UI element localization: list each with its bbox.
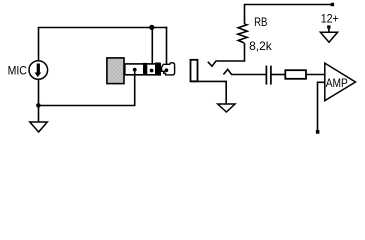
junction dot bottom	[36, 103, 41, 108]
wire bottom horizontal	[38, 105, 136, 107]
wire to ground left	[38, 106, 40, 123]
junction dot top	[149, 25, 154, 30]
microphone arrow	[35, 64, 42, 78]
wire mic bottom	[38, 79, 40, 105]
plug band 1	[143, 63, 147, 76]
socket ring contact	[223, 69, 266, 74]
wire top horizontal	[38, 27, 168, 29]
ground left	[30, 122, 48, 132]
plug tip contact tick	[164, 70, 166, 72]
ground socket	[218, 104, 235, 112]
wire cap to resistor	[271, 74, 286, 76]
socket tip contact	[208, 43, 245, 66]
supply 12+ triangle	[320, 32, 337, 42]
svg-text:RB: RB	[254, 16, 268, 29]
tip tap dot	[165, 68, 169, 72]
resistor RB zigzag	[238, 24, 247, 43]
amplifier AMP triangle	[325, 63, 356, 101]
plug barrel (sleeve+ring)	[125, 64, 160, 75]
sleeve tap dot	[133, 68, 137, 72]
supply 12+ stub	[328, 29, 330, 33]
wire mic top up	[38, 28, 40, 61]
plug tip	[162, 63, 175, 75]
plug body (gray handle)	[107, 58, 124, 84]
wire drop to ring tap	[151, 28, 153, 71]
ring tap dot	[150, 69, 154, 73]
microphone MIC (circle symbol)	[29, 61, 48, 80]
wire RB top	[245, 5, 333, 25]
amp lower pin wire	[318, 82, 325, 130]
svg-text:12+: 12+	[321, 13, 339, 26]
wire resistor to amp	[306, 74, 325, 76]
socket ground wire	[190, 81, 226, 104]
endpoint square top right	[331, 3, 334, 6]
resistor R (box)	[285, 70, 306, 79]
svg-text:AMP: AMP	[326, 77, 348, 90]
wire drop to tip tap	[166, 27, 168, 70]
svg-text:MIC: MIC	[8, 65, 27, 78]
supply 12+ terminal square	[327, 25, 330, 28]
jack socket body	[191, 60, 198, 82]
endpoint square bottom	[316, 130, 320, 134]
capacitor C plate right	[270, 66, 272, 85]
plug band 2	[155, 63, 161, 76]
svg-text:8,2k: 8,2k	[249, 40, 272, 53]
capacitor C plate left	[265, 66, 267, 85]
wire sleeve down	[134, 70, 136, 106]
